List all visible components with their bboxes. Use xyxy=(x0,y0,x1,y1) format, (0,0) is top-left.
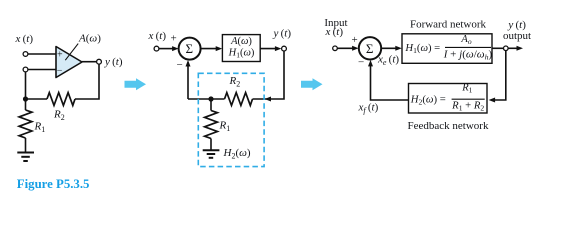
svg-text:y (t): y (t) xyxy=(104,56,123,68)
svg-text:A(ω): A(ω) xyxy=(78,33,101,45)
svg-text:x (t): x (t) xyxy=(148,30,167,42)
wire R2 to junction xyxy=(26,98,48,100)
svg-text:R1: R1 xyxy=(34,121,46,134)
wire forward block to output xyxy=(492,47,504,49)
svg-text:H2(ω) =: H2(ω) = xyxy=(410,94,446,106)
svg-text:+: + xyxy=(171,33,177,45)
wire summer to forward block xyxy=(381,47,397,49)
node y(t) output terminal xyxy=(282,46,287,51)
svg-text:−: − xyxy=(177,59,183,71)
svg-text:H1(ω) =: H1(ω) = xyxy=(404,43,440,55)
resistor R1 xyxy=(205,111,218,139)
summing junction xyxy=(359,37,381,59)
svg-text:Feedback network: Feedback network xyxy=(408,120,489,132)
svg-text:R1: R1 xyxy=(219,120,231,133)
svg-text:y (t): y (t) xyxy=(273,27,292,39)
svg-text:y (t): y (t) xyxy=(507,19,526,31)
wire R2 to summer branch xyxy=(188,98,225,100)
wire noninverting input xyxy=(28,53,56,55)
svg-text:−: − xyxy=(358,57,364,69)
forward network block H1 xyxy=(402,34,493,64)
svg-text:x (t): x (t) xyxy=(15,33,34,45)
wire junction to R1 xyxy=(25,99,27,110)
svg-text:Forward network: Forward network xyxy=(410,19,487,31)
wire output down to feedback block xyxy=(494,51,506,100)
svg-text:Figure P5.3.5: Figure P5.3.5 xyxy=(17,177,90,191)
wire feedback up to summer xyxy=(187,64,189,100)
svg-text:+: + xyxy=(352,34,358,46)
wire op-amp output xyxy=(82,61,97,63)
wire inverting input xyxy=(28,69,56,71)
svg-text:xf (t): xf (t) xyxy=(358,102,379,115)
dashed feedback network box xyxy=(198,73,264,166)
block A(ω)/H1(ω) xyxy=(222,35,260,62)
svg-text:x (t): x (t) xyxy=(325,26,344,38)
wire summer to block xyxy=(201,48,218,50)
node y(t) output terminal xyxy=(504,46,509,51)
resistor R2 feedback xyxy=(225,93,253,106)
junction node xyxy=(23,96,28,101)
ground xyxy=(17,153,34,162)
arrowhead into summer bottom xyxy=(368,60,373,67)
junction node xyxy=(208,96,213,101)
wire block to output xyxy=(260,48,277,50)
svg-text:Σ: Σ xyxy=(366,41,374,56)
svg-text:+: + xyxy=(57,50,63,61)
svg-text:−: − xyxy=(57,65,63,76)
wire output down to feedback rail xyxy=(253,51,285,99)
svg-text:A(ω): A(ω) xyxy=(230,36,252,47)
feedback network block H2 xyxy=(409,82,488,113)
svg-text:R2: R2 xyxy=(229,75,241,88)
arrowhead into summer bottom xyxy=(186,60,191,67)
arrowhead into forward block xyxy=(395,46,402,51)
svg-text:R1 + R2: R1 + R2 xyxy=(451,101,484,113)
arrowhead into feedback block xyxy=(489,98,496,103)
node inverting input terminal xyxy=(23,67,28,72)
svg-text:Σ: Σ xyxy=(186,41,194,56)
transition arrow 1 xyxy=(125,78,147,90)
wire output down to feedback rail xyxy=(75,64,99,99)
arrowhead into summer xyxy=(352,46,359,51)
wire inverting node down to junction xyxy=(25,72,27,99)
wire R1 to ground xyxy=(210,139,212,151)
transition arrow 2 xyxy=(301,78,323,90)
svg-text:H2(ω): H2(ω) xyxy=(223,147,251,160)
arrowhead into summer xyxy=(172,46,179,51)
wire junction to R1 xyxy=(210,99,212,111)
svg-text:R2: R2 xyxy=(53,109,65,122)
resistor R2 xyxy=(47,93,75,106)
node input terminal xyxy=(333,46,338,51)
wire R1 to ground xyxy=(25,138,27,153)
svg-text:xe (t): xe (t) xyxy=(377,54,399,67)
wire feedback block to summer xyxy=(371,64,409,100)
wire output arrow xyxy=(508,47,517,49)
summing junction xyxy=(179,38,201,60)
resistor R1 xyxy=(19,110,32,138)
wire input to summer xyxy=(337,47,354,49)
arrowhead into block xyxy=(216,46,223,51)
arrowhead output xyxy=(517,46,524,51)
arrowhead to output node xyxy=(275,46,282,51)
node x(t) input terminal xyxy=(23,52,28,57)
svg-text:output: output xyxy=(503,30,531,42)
arrowhead feedback direction left xyxy=(265,97,272,102)
node input terminal xyxy=(154,46,159,51)
ground xyxy=(203,150,220,158)
wire input to summer xyxy=(159,48,174,50)
node y(t) output terminal xyxy=(97,59,102,64)
op-amp U1 xyxy=(56,47,82,78)
svg-text:H1(ω): H1(ω) xyxy=(228,48,255,60)
label A(ω) with pointer line xyxy=(65,33,101,61)
